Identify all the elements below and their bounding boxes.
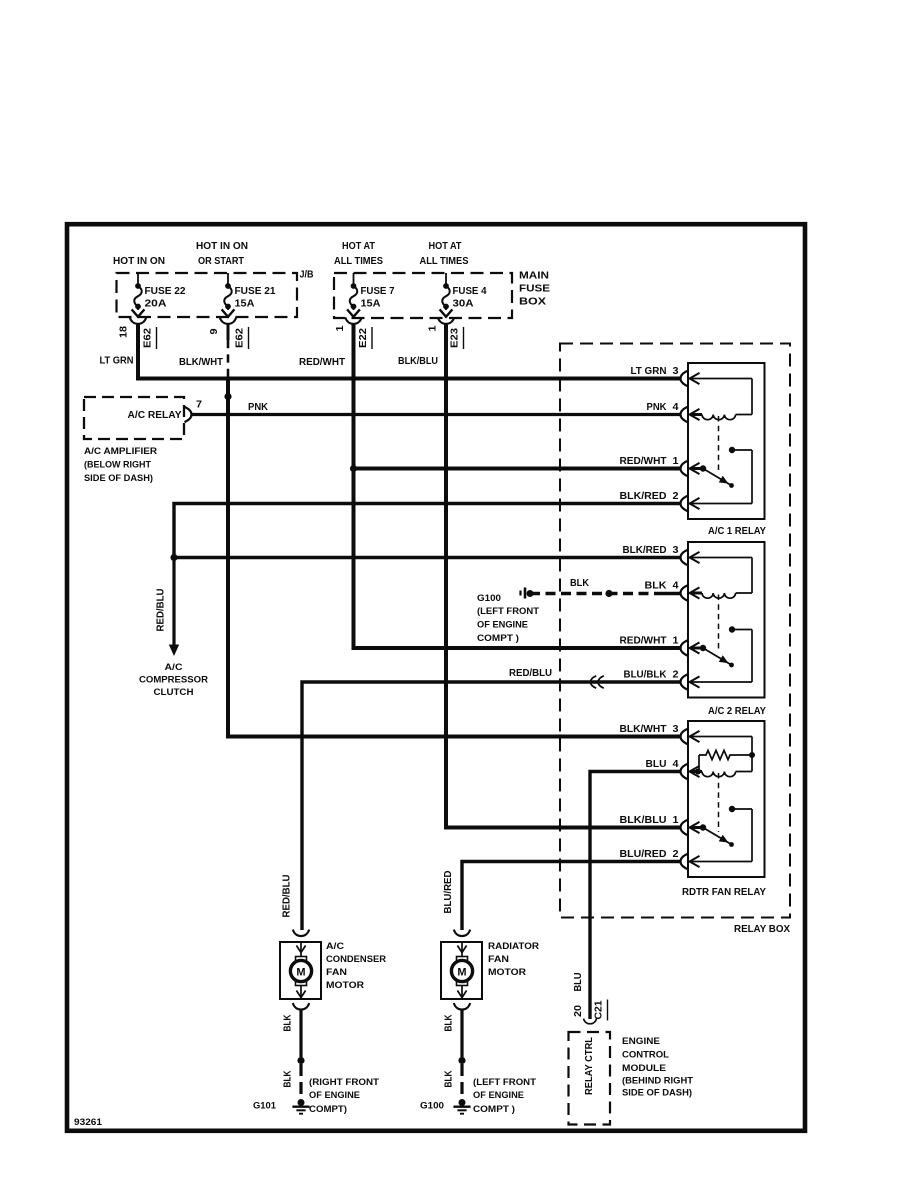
svg-text:COMPT ): COMPT ) [477, 633, 519, 644]
svg-text:RELAY CTRL: RELAY CTRL [584, 1037, 595, 1095]
svg-text:18: 18 [119, 325, 130, 338]
svg-text:E62: E62 [235, 327, 246, 348]
svg-text:RED/WHT: RED/WHT [299, 357, 346, 368]
wire BLK/BLU horizontal to RDTR fan relay pin 1 [444, 826, 681, 830]
svg-text:OF ENGINE: OF ENGINE [309, 1090, 360, 1101]
svg-text:ALL TIMES: ALL TIMES [420, 256, 469, 267]
svg-text:BLU: BLU [573, 973, 584, 992]
svg-text:COMPRESSOR: COMPRESSOR [139, 675, 208, 686]
A/C relay dashed box [84, 397, 184, 439]
svg-text:2: 2 [673, 849, 679, 860]
ground path of condenser fan motor (BLK) [293, 1003, 309, 1010]
svg-text:RED/WHT: RED/WHT [620, 635, 668, 646]
svg-text:3: 3 [673, 366, 679, 377]
svg-text:20A: 20A [145, 299, 168, 310]
svg-text:4: 4 [673, 402, 679, 413]
svg-text:PNK: PNK [248, 402, 269, 413]
svg-text:1: 1 [335, 325, 346, 332]
wire RED/WHT horizontal to A/C 2 relay pin 1 [352, 646, 681, 650]
junction block J/B dashed box [117, 273, 298, 317]
svg-text:RED/BLU: RED/BLU [509, 668, 552, 679]
svg-text:MOTOR: MOTOR [326, 979, 364, 990]
wire BLK dashed from G100 [530, 592, 658, 596]
splice dot on BLK wire [605, 590, 612, 597]
svg-text:ENGINE: ENGINE [622, 1035, 660, 1046]
relay U2 A/C 2 relay [688, 542, 765, 698]
svg-text:ALL TIMES: ALL TIMES [334, 256, 383, 267]
svg-text:BOX: BOX [519, 297, 546, 308]
svg-text:E22: E22 [358, 327, 369, 348]
svg-text:FUSE 4: FUSE 4 [453, 286, 487, 297]
wire BLU from RDTR fan relay pin 4 to ECM [590, 772, 681, 1020]
svg-text:MOTOR: MOTOR [488, 966, 526, 977]
wire RED/BLU drop to compressor clutch [172, 558, 175, 646]
svg-text:A/C: A/C [165, 662, 183, 673]
svg-text:BLU/BLK: BLU/BLK [624, 669, 668, 680]
svg-text:93261: 93261 [74, 1117, 103, 1128]
wire PNK to relay pin 4 [192, 413, 681, 416]
connector E23 pin 1 socket [438, 317, 454, 324]
svg-text:COMPT ): COMPT ) [473, 1104, 515, 1115]
svg-text:BLK/WHT: BLK/WHT [620, 724, 668, 735]
svg-text:BLK/RED: BLK/RED [623, 545, 667, 556]
connector E62 pin 18 socket [130, 317, 146, 324]
svg-text:RED/WHT: RED/WHT [620, 456, 668, 467]
svg-text:(LEFT FRONT: (LEFT FRONT [473, 1077, 536, 1088]
fuse F7 symbol [347, 273, 360, 317]
svg-text:4: 4 [673, 759, 679, 770]
svg-text:(BEHIND RIGHT: (BEHIND RIGHT [622, 1075, 693, 1086]
svg-text:BLK: BLK [283, 1071, 294, 1088]
connector E22 pin 1 socket [345, 317, 361, 324]
svg-text:MAIN: MAIN [519, 271, 549, 282]
svg-text:15A: 15A [235, 299, 256, 310]
wire BLK/WHT stub below E62 [227, 324, 230, 341]
svg-text:FUSE 22: FUSE 22 [145, 286, 186, 297]
relay U1 A/C 1 relay [688, 363, 765, 519]
svg-text:HOT IN ON: HOT IN ON [196, 241, 248, 252]
svg-text:3: 3 [673, 724, 679, 735]
svg-text:RELAY BOX: RELAY BOX [734, 924, 790, 935]
svg-text:G100: G100 [477, 593, 501, 604]
svg-text:HOT AT: HOT AT [429, 241, 463, 252]
svg-text:CONTROL: CONTROL [622, 1049, 669, 1060]
svg-text:CLUTCH: CLUTCH [154, 687, 194, 698]
svg-text:1: 1 [673, 635, 679, 646]
svg-text:1: 1 [673, 456, 679, 467]
svg-text:MODULE: MODULE [622, 1062, 666, 1073]
wire BLK solid to A/C 2 relay pin 4 [658, 592, 681, 596]
wire BLK/RED to A/C 2 relay pin 3 [174, 556, 681, 559]
svg-text:HOT IN ON: HOT IN ON [113, 256, 165, 267]
svg-text:BLK/BLU: BLK/BLU [620, 815, 667, 826]
ground path of radiator fan motor (BLK) [454, 1003, 470, 1010]
svg-text:BLU/RED: BLU/RED [443, 871, 454, 914]
connector E62 pin 9 socket [220, 317, 236, 324]
wire BLU/BLK from A/C 2 relay pin 2 to condenser fan [302, 682, 681, 930]
svg-text:E23: E23 [450, 327, 461, 348]
relay box dashed enclosure [560, 344, 790, 918]
svg-text:4: 4 [673, 580, 679, 591]
motor M2 radiator fan motor [454, 930, 470, 937]
svg-text:G101: G101 [253, 1101, 277, 1112]
svg-text:COMPT): COMPT) [309, 1104, 347, 1115]
svg-text:BLK: BLK [645, 580, 668, 591]
svg-text:SIDE OF DASH): SIDE OF DASH) [84, 473, 153, 484]
svg-text:FUSE 21: FUSE 21 [235, 286, 276, 297]
svg-text:15A: 15A [361, 299, 382, 310]
fuse F22 symbol [132, 273, 145, 317]
ground G100 (engine compt) symbol [524, 588, 527, 599]
svg-text:BLK/WHT: BLK/WHT [179, 357, 224, 368]
svg-text:1: 1 [428, 325, 439, 332]
svg-text:(LEFT FRONT: (LEFT FRONT [477, 606, 539, 617]
svg-text:7: 7 [196, 400, 203, 411]
junction dot BLK/RED [170, 554, 177, 561]
svg-text:A/C 2 RELAY: A/C 2 RELAY [708, 706, 766, 717]
wire RED/WHT branch to A/C 1 relay pin 1 [354, 467, 681, 471]
svg-text:RDTR FAN RELAY: RDTR FAN RELAY [682, 887, 766, 898]
svg-text:2: 2 [673, 669, 679, 680]
svg-text:A/C RELAY: A/C RELAY [128, 410, 182, 421]
svg-text:FAN: FAN [326, 966, 347, 977]
svg-text:BLU/RED: BLU/RED [620, 849, 667, 860]
relay U3 RDTR fan relay [688, 721, 765, 877]
arrowhead to A/C compressor clutch [169, 645, 179, 657]
svg-text:M: M [296, 967, 305, 979]
inline connector pair on RED/BLU-BLU/BLK wire [590, 676, 596, 688]
svg-text:3: 3 [673, 545, 679, 556]
svg-text:9: 9 [209, 328, 220, 335]
svg-text:RADIATOR: RADIATOR [488, 940, 539, 951]
svg-text:E62: E62 [143, 327, 154, 348]
connector C21 socket [583, 1019, 596, 1024]
svg-text:LT GRN: LT GRN [100, 356, 134, 367]
wire BLK/BLU vertical from fuse 4 [444, 324, 448, 828]
connector plug on A/C relay output [185, 407, 192, 422]
svg-text:FAN: FAN [488, 953, 509, 964]
svg-text:J/B: J/B [300, 270, 314, 281]
svg-text:(RIGHT FRONT: (RIGHT FRONT [309, 1077, 379, 1088]
wire BLK/WHT vertical run [226, 377, 230, 737]
wire LT GRN from fuse 22 to relay pin 3 [138, 324, 681, 379]
svg-text:C21: C21 [594, 1000, 605, 1020]
svg-text:20: 20 [573, 1004, 584, 1017]
motor M1 A/C condenser fan motor [293, 930, 309, 937]
wire RED/WHT vertical from fuse 7 [352, 324, 356, 649]
svg-text:BLK: BLK [444, 1015, 455, 1032]
svg-text:G100: G100 [420, 1101, 444, 1112]
svg-text:30A: 30A [453, 299, 475, 310]
svg-text:BLK: BLK [283, 1015, 294, 1032]
diagram border frame [67, 224, 805, 1131]
svg-text:OF ENGINE: OF ENGINE [477, 620, 528, 631]
svg-text:A/C: A/C [326, 940, 344, 951]
svg-text:M: M [457, 967, 466, 979]
wire BLU/RED from RDTR fan relay pin 2 to radiator fan [462, 862, 681, 931]
svg-text:BLK/RED: BLK/RED [620, 491, 667, 502]
svg-text:2: 2 [673, 491, 679, 502]
svg-text:A/C AMPLIFIER: A/C AMPLIFIER [84, 446, 157, 457]
svg-text:BLU: BLU [646, 759, 667, 770]
svg-text:A/C 1 RELAY: A/C 1 RELAY [708, 526, 766, 537]
svg-text:OR START: OR START [198, 256, 245, 267]
svg-text:1: 1 [673, 815, 679, 826]
main fuse box dashed box [334, 273, 512, 318]
wire BLK/RED from A/C 1 relay pin 2 [174, 504, 681, 558]
svg-text:CONDENSER: CONDENSER [326, 953, 386, 964]
svg-text:LT GRN: LT GRN [631, 366, 667, 377]
svg-text:FUSE: FUSE [519, 284, 550, 295]
junction dot RED/WHT [350, 465, 357, 472]
svg-text:BLK/BLU: BLK/BLU [398, 356, 438, 367]
fuse F21 symbol [222, 273, 235, 317]
svg-text:PNK: PNK [647, 402, 668, 413]
wire BLK/WHT horizontal to RDTR fan relay pin 3 [226, 735, 681, 739]
svg-text:BLK: BLK [444, 1071, 455, 1088]
wire BLK/WHT dashed segment [227, 340, 230, 377]
svg-text:SIDE OF DASH): SIDE OF DASH) [622, 1087, 692, 1098]
splice dot on BLK/WHT [224, 393, 231, 400]
svg-text:(BELOW RIGHT: (BELOW RIGHT [84, 460, 151, 471]
svg-text:RED/BLU: RED/BLU [156, 589, 167, 632]
fuse F4 symbol [440, 273, 453, 317]
svg-text:RED/BLU: RED/BLU [282, 875, 293, 918]
svg-text:HOT AT: HOT AT [342, 241, 376, 252]
svg-text:BLK: BLK [570, 578, 589, 589]
svg-text:OF ENGINE: OF ENGINE [473, 1090, 524, 1101]
svg-text:FUSE 7: FUSE 7 [361, 286, 395, 297]
engine control module dashed box [569, 1032, 611, 1125]
